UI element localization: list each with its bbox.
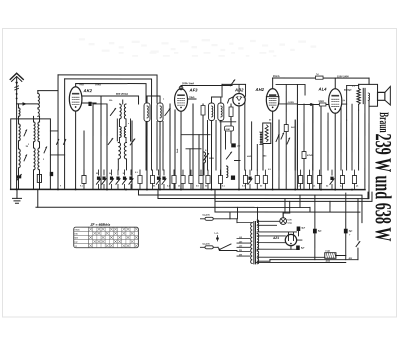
svg-text:800 20mA: 800 20mA xyxy=(116,92,128,96)
svg-text:65mA: 65mA xyxy=(273,75,280,78)
svg-text:4MΩ: 4MΩ xyxy=(247,155,252,158)
svg-text:1MΩ: 1MΩ xyxy=(209,158,214,160)
svg-text:5kΩ: 5kΩ xyxy=(291,127,295,129)
svg-text:239 W und 638 W: 239 W und 638 W xyxy=(370,133,396,241)
svg-text:240: 240 xyxy=(239,253,242,256)
svg-text:6800pF: 6800pF xyxy=(344,90,352,92)
svg-text:AH2: AH2 xyxy=(255,87,265,92)
svg-text:125: 125 xyxy=(239,241,242,243)
svg-text:MW: MW xyxy=(75,238,79,240)
svg-text:L.A.: L.A. xyxy=(214,232,219,235)
svg-text:-0.35V: -0.35V xyxy=(288,102,295,104)
svg-text:AF3: AF3 xyxy=(189,87,199,92)
svg-text:KW: KW xyxy=(75,233,78,235)
svg-text:GND: GND xyxy=(226,129,231,131)
svg-text:78Ω: 78Ω xyxy=(79,83,84,86)
svg-text:6.3V: 6.3V xyxy=(287,219,292,221)
svg-text:AK2: AK2 xyxy=(83,88,93,93)
svg-text:220: 220 xyxy=(239,250,242,252)
svg-text:AL4: AL4 xyxy=(318,87,328,92)
svg-text:LW: LW xyxy=(75,242,78,244)
svg-text:70kΩ: 70kΩ xyxy=(189,97,195,99)
svg-text:35kΩ: 35kΩ xyxy=(95,83,101,86)
svg-text:3mA: 3mA xyxy=(176,148,179,153)
svg-text:0.3A: 0.3A xyxy=(287,222,292,225)
svg-text:AZ1: AZ1 xyxy=(272,236,279,240)
svg-text:46V: 46V xyxy=(348,257,352,260)
svg-text:ZF = 468kHz: ZF = 468kHz xyxy=(89,223,110,227)
svg-text:0.1A/Tr: 0.1A/Tr xyxy=(202,243,209,246)
svg-text:7el: 7el xyxy=(316,74,319,76)
svg-text:50kΩ: 50kΩ xyxy=(319,101,325,103)
svg-text:220V 240V: 220V 240V xyxy=(337,75,349,78)
svg-text:200k 3mA: 200k 3mA xyxy=(182,81,194,85)
svg-text:100: 100 xyxy=(237,146,240,148)
svg-text:47kΩ: 47kΩ xyxy=(307,154,313,157)
svg-text:0.1A/Tr: 0.1A/Tr xyxy=(202,214,209,217)
svg-text:Braun: Braun xyxy=(376,112,390,133)
svg-text:150: 150 xyxy=(239,246,242,248)
svg-text:110: 110 xyxy=(239,237,242,239)
